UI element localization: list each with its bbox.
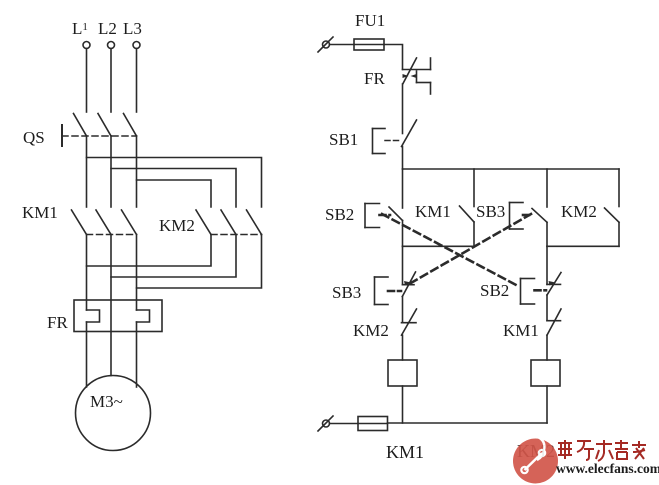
svg-text:M3~: M3~ [90, 392, 123, 411]
wire SB1 to top bus [402, 147, 404, 170]
wire FU1 to FR contact [384, 45, 403, 70]
wire QS to KM1 pole2 [110, 136, 112, 207]
svg-text:SB2: SB2 [480, 281, 509, 300]
pushbutton SB3 (reverse start, NO) [476, 202, 547, 246]
pushbutton SB1 (stop, NC) [329, 120, 417, 154]
svg-text:www.elecfans.com: www.elecfans.com [556, 461, 659, 476]
wire bottom bus [388, 422, 548, 424]
wire FR contact to SB1 [402, 84, 404, 134]
wire KM1 pole1 down [86, 235, 88, 311]
fuse FU1 [354, 11, 385, 50]
svg-text:SB3: SB3 [332, 283, 361, 302]
contactor KM2 main contacts [159, 210, 262, 235]
contact KM1 NC (interlock) [503, 309, 561, 340]
wire SB2 NC to KM1 NC [546, 295, 548, 321]
wire KM2 pole2 merge [111, 235, 236, 278]
svg-text:KM1: KM1 [503, 321, 539, 340]
svg-text:QS: QS [23, 128, 45, 147]
pushbutton SB2 (forward start, NO) [325, 169, 403, 246]
contact KM2 NC (interlock) [353, 309, 417, 340]
svg-text:L3: L3 [123, 19, 142, 38]
wire QS to KM1 pole3 [136, 136, 138, 207]
wire branch SB3 top [546, 169, 548, 207]
wire L1 to QS [86, 49, 88, 113]
wire KM1 coil to bottom bus [402, 386, 404, 423]
svg-text:KM1: KM1 [386, 442, 424, 462]
wire branch KM2 aux top [618, 169, 620, 207]
wire branch L2 to KM2 pole2 [111, 169, 236, 208]
wire lower bus right pair [547, 245, 619, 247]
coil KM1 [388, 360, 417, 386]
node L1 [72, 19, 90, 49]
thermal relay FR heater box [47, 300, 162, 332]
svg-text:SB2: SB2 [325, 205, 354, 224]
contact KM1 auxiliary NO [415, 202, 474, 246]
svg-text:KM2: KM2 [159, 216, 195, 235]
watermark elecfans logo [513, 437, 558, 484]
wire KM2 pole3 merge [137, 235, 262, 289]
motor M3~ [76, 376, 151, 451]
wire L2 to QS [110, 49, 112, 113]
fuse FU2 bottom [358, 417, 388, 431]
svg-text:KM1: KM1 [415, 202, 451, 221]
watermark text dianzifashaoyou [558, 440, 646, 461]
wire KM1 pole2 down [110, 235, 112, 376]
thermal relay FR NC contact [364, 58, 431, 94]
svg-text:FU1: FU1 [355, 11, 385, 30]
svg-text:SB3: SB3 [476, 202, 505, 221]
mechanical interlock link SB2 to SB2 NC [382, 214, 519, 287]
mechanical interlock link SB3 to SB3 NC [410, 214, 531, 284]
wire KM2 pole1 merge [87, 235, 212, 267]
wire branch KM1 aux top [473, 169, 475, 207]
svg-text:KM1: KM1 [22, 203, 58, 222]
wire L3 to QS [136, 49, 138, 113]
switch QS [23, 114, 137, 148]
wire KM2 NC to KM1 coil [402, 335, 404, 360]
svg-text:KM2: KM2 [561, 202, 597, 221]
svg-text:SB1: SB1 [329, 130, 358, 149]
link SB2 actuator dash [380, 214, 391, 217]
wire right branch down [546, 246, 548, 284]
wire left branch down [402, 246, 404, 284]
coil KM2 [531, 360, 560, 386]
wire terminal to FU1 [330, 44, 355, 46]
svg-text:KM2: KM2 [353, 321, 389, 340]
contact KM2 auxiliary NO [561, 202, 619, 246]
svg-text:FR: FR [364, 69, 385, 88]
wire KM2 coil to bottom bus [546, 386, 548, 423]
svg-text:FR: FR [47, 313, 68, 332]
wire FR to motor phase3 [136, 322, 138, 387]
wire KM1 NC to KM2 coil [546, 335, 548, 360]
wire terminal to bottom fuse [330, 423, 359, 425]
wire QS to KM1 pole1 [86, 136, 88, 207]
contactor KM1 main contacts [22, 203, 137, 235]
link SB3 actuator dash [523, 214, 533, 217]
wire SB3 NC to KM2 NC [402, 297, 404, 323]
control terminal top [318, 37, 333, 52]
pushbutton SB2 NC (interlock) [480, 273, 561, 305]
wire top bus [403, 168, 620, 170]
svg-text:L2: L2 [98, 19, 117, 38]
wire branch L1 to KM2 pole3 [87, 158, 262, 208]
pushbutton SB3 NC (interlock) [332, 272, 416, 305]
wire KM1 pole3 down [136, 235, 138, 311]
control terminal bottom [318, 416, 333, 431]
wire branch L3 to KM2 pole1 [137, 180, 212, 207]
wire lower bus left pair [403, 245, 475, 247]
node L3 [123, 19, 142, 49]
node L2 [98, 19, 117, 49]
wire FR to motor phase1 [86, 322, 88, 387]
